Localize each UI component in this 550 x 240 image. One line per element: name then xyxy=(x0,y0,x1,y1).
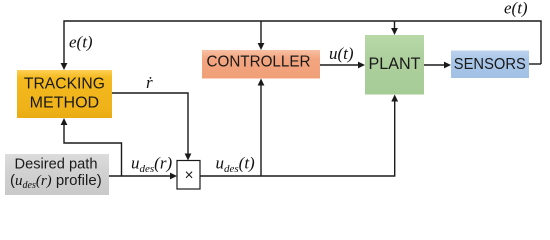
svg-text:CONTROLLER: CONTROLLER xyxy=(207,54,311,71)
block Desired path xyxy=(5,154,109,195)
svg-text:SENSORS: SENSORS xyxy=(454,56,526,73)
svg-text:PLANT: PLANT xyxy=(369,55,421,73)
svg-text:TRACKING: TRACKING xyxy=(24,76,105,93)
block TRACKING METHOD xyxy=(17,70,112,118)
block CONTROLLER xyxy=(202,50,320,79)
svg-text:u(t): u(t) xyxy=(329,44,354,63)
svg-text:e(t): e(t) xyxy=(69,33,93,52)
wire: multiplier output to plant bottom xyxy=(200,97,395,177)
wire: branch up into controller bottom xyxy=(260,81,262,177)
wire: branch down into plant top xyxy=(394,21,396,33)
svg-text:×: × xyxy=(184,167,193,184)
wire: branch up from desired path wire to tracking method bottom xyxy=(64,120,122,176)
wire: sensors output to feedback corner xyxy=(529,63,541,65)
svg-text:METHOD: METHOD xyxy=(30,95,100,112)
wire: tracking method rdot out to multiplier xyxy=(112,93,188,159)
svg-text:e(t): e(t) xyxy=(504,0,528,18)
block PLANT xyxy=(365,35,424,95)
wire: plant to sensors xyxy=(424,64,449,66)
wire: branch down into controller top xyxy=(260,21,262,48)
multiplier X box xyxy=(177,161,200,190)
svg-text:ṙ: ṙ xyxy=(146,73,153,92)
block SENSORS xyxy=(451,51,529,79)
arrowhead into tracking method top xyxy=(61,63,68,70)
svg-text:Desired path: Desired path xyxy=(15,157,98,173)
wire: desired path out to multiplier xyxy=(109,175,175,177)
wire: controller to plant xyxy=(320,64,363,66)
wire: top feedback line from sensors corner to tracking method xyxy=(64,21,541,68)
